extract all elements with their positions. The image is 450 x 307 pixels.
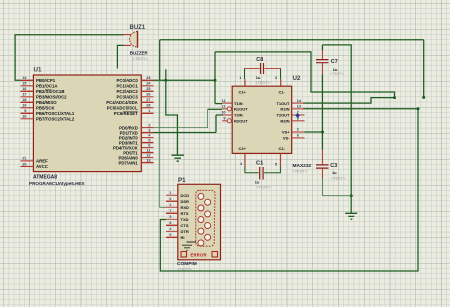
svg-text:RXD: RXD [181,205,190,210]
P1 pin 7 RTS stub [166,212,178,214]
svg-text:PC2/ADC2: PC2/ADC2 [117,89,139,94]
U2 pin 10 T2IN left stub [222,114,232,116]
svg-text:11: 11 [221,99,225,103]
svg-text:BUZ1: BUZ1 [130,25,146,31]
svg-text:U1: U1 [34,67,42,74]
svg-text:AVCC: AVCC [36,164,48,169]
svg-text:13: 13 [297,105,301,109]
wire T1IN net to C7 corner net [215,52,395,104]
svg-text:2: 2 [297,128,299,132]
capacitor C7 [321,51,323,60]
svg-text:19: 19 [22,104,26,108]
svg-text:DTR: DTR [181,229,189,234]
U1 pin 18 (PB4…) left stub [21,101,34,103]
svg-text:DCD: DCD [181,193,190,198]
svg-text:25: 25 [146,87,150,91]
wire net A thin: down to P1 RXD [160,80,166,207]
U1 pin 2 right stub [141,127,153,129]
P1 pin 6 DSR stub [166,200,178,202]
svg-text:12: 12 [221,105,225,109]
svg-text:PC4/ADC4/SDA: PC4/ADC4/SDA [106,100,138,105]
svg-text:9: 9 [24,109,26,113]
wire U1 PC0 (pin23) to T1IN net [154,79,216,81]
U1 pin 6 right stub [141,147,153,149]
U2 pin 9 R2OUT left stub [222,120,227,122]
buzzer BUZ1 [130,32,138,48]
svg-text:C2-: C2- [279,146,286,151]
U2 pin 14 T1OUT right stub [292,102,305,104]
wire C8 left lead down to U2 pin1 [244,68,246,79]
svg-text:<TEXT>: <TEXT> [255,80,270,85]
U1 pin 15 (PB1…) left stub [21,85,34,87]
svg-text:C3: C3 [330,163,337,169]
svg-text:PB7/TOSC2/XTAL2: PB7/TOSC2/XTAL2 [36,117,75,122]
U2 pin 8 R2IN right stub [292,120,305,122]
svg-text:28: 28 [146,104,150,108]
U1 pin 1 right stub [141,112,153,114]
svg-text:RI: RI [181,235,185,240]
P1 DB9 hole col1-1 [198,193,204,199]
P1 DB9 hole col2-3 [205,223,211,229]
U2 pin 7 T2OUT right stub [292,114,305,116]
svg-text:R1IN: R1IN [280,107,289,112]
svg-text:15: 15 [22,82,26,86]
svg-text:C7: C7 [331,59,338,65]
svg-text:<TEXT>: <TEXT> [330,71,345,76]
svg-text:ERROR: ERROR [191,252,207,257]
node junction R1IN corner [417,107,420,110]
U1 pin 9 (PB6…) left stub [21,112,34,114]
U2 pin 4 C2+ bottom stub [244,153,246,167]
svg-text:PC1/ADC1: PC1/ADC1 [117,84,139,89]
svg-text:3: 3 [275,76,277,80]
svg-text:21: 21 [22,157,26,161]
ground symbol right [345,213,357,219]
U1 pin 28 right stub [141,107,153,109]
U2 pin 5 C2- bottom stub [279,153,281,167]
wire C1 left lead [245,167,259,173]
svg-text:1: 1 [169,191,171,195]
BUZ1 pin 2 [124,44,132,46]
wire C3 bottom to ground rail [322,179,351,196]
ground symbol left [172,155,184,161]
svg-text:PC6/RESET: PC6/RESET [114,111,138,116]
U1 pin 19 (PB5…) left stub [21,107,34,109]
U1 pin 23 right stub [141,79,153,81]
svg-text:U2: U2 [293,75,301,82]
U1 pin 24 right stub [141,85,153,87]
svg-text:8: 8 [169,221,171,225]
svg-text:RTS: RTS [181,211,189,216]
U2 pin 13 R1IN right stub [292,108,305,110]
op-amp U2 (MAX232) body [232,86,292,153]
svg-text:PD7/AIN1: PD7/AIN1 [118,160,138,165]
U1 pin 27 right stub [141,101,153,103]
svg-text:10: 10 [221,111,225,115]
svg-text:9: 9 [223,117,225,121]
wire net A: vertical x159.7 top + horizontal y39.8 [160,40,424,81]
svg-text:6: 6 [148,143,150,147]
node junction end [393,96,396,99]
U2 pin 3 C1- top stub [280,79,282,86]
U1 pin 21 AREF stub [21,160,34,162]
svg-text:11: 11 [146,148,150,152]
wire C7 top to right rail down to ground [322,45,351,214]
node junction PC0/W2 [164,79,167,82]
svg-text:R2OUT: R2OUT [234,119,248,124]
U2 pin 1 C1+ top stub [244,79,246,86]
wire U1 PD1/TXD to U2 T2IN [154,115,224,133]
P1 DB9 hole col2-2 [205,211,211,217]
U1 pin 14 (PB0…) left stub [21,79,34,81]
svg-text:26: 26 [146,93,150,97]
svg-text:5: 5 [148,138,150,142]
svg-text:<TEXT>: <TEXT> [133,56,149,61]
svg-text:PC0/ADC0: PC0/ADC0 [117,78,139,83]
svg-text:13: 13 [146,158,150,162]
wire C8 right lead down to U2 pin3 [280,68,282,79]
svg-text:AREF: AREF [36,159,48,164]
svg-text:1: 1 [239,76,241,80]
P1 pin 3 TXD stub [166,218,178,220]
svg-text:23: 23 [146,76,150,80]
svg-text:ATMEGA8: ATMEGA8 [33,174,57,180]
P1 status square right [212,252,218,258]
BUZ1 pin 1 [124,34,132,36]
node junction rail/C3 [350,194,353,197]
svg-text:P1: P1 [178,177,186,184]
svg-text:6: 6 [297,134,299,138]
op-amp U1 (ATMEGA8 MCU) body [33,75,141,172]
connector P1 (COMPIM) body [178,184,221,259]
wire U2 T1OUT to junction [303,98,395,104]
svg-text:C1: C1 [256,161,264,167]
capacitor C8 [245,67,281,69]
svg-text:PROGRAM=Untype5.HEX: PROGRAM=Untype5.HEX [29,181,85,186]
P1 status square left [181,252,187,258]
wire buzzer bottom (dangling) [117,45,123,68]
U2 pin 2 VS+ right stub [292,131,305,133]
U1 pin 20 AVCC stub [21,166,34,168]
svg-text:PB5/SCK: PB5/SCK [36,106,56,111]
P1 DB9 hole col1-4 [198,228,204,234]
node junction T1IN/PC0 [214,79,217,82]
svg-text:T1IN: T1IN [234,101,243,106]
svg-text:T1OUT: T1OUT [276,101,290,106]
P1 DB9 hole col1-5 [198,240,204,246]
U1 pin 26 right stub [141,96,153,98]
U1 pin 13 right stub [141,162,153,164]
svg-text:2: 2 [148,123,150,127]
wire buzzer top to U1 PB0 (pin14) [15,35,123,81]
svg-text:9: 9 [169,233,171,237]
svg-text:T2IN: T2IN [234,113,243,118]
svg-text:2: 2 [169,203,171,207]
wire U2 R1IN to P1 TXD via bottom run [160,109,418,271]
svg-text:1: 1 [148,109,150,113]
svg-text:VS-: VS- [283,136,290,141]
P1 pin 4 DTR stub [166,230,178,232]
svg-text:C2+: C2+ [239,146,247,151]
wire net A right drop [423,40,425,98]
capacitor C3 [321,150,323,165]
P1 DB9 hole col1-3 [198,217,204,223]
U1 pin 12 right stub [141,157,153,159]
P1 pin 2 RXD stub [166,206,178,208]
svg-text:5: 5 [275,163,277,167]
svg-text:PB2/SS/OC1B: PB2/SS/OC1B [36,89,64,94]
U2 pin 6 VS- right stub [292,137,305,139]
U1 pin 5 right stub [141,142,153,144]
svg-text:PB1/OC1A: PB1/OC1A [36,84,58,89]
P1 internal ground symbol [182,242,196,250]
svg-text:TXD: TXD [181,217,189,222]
svg-text:<TEXT>: <TEXT> [256,185,271,190]
svg-text:<TEXT>: <TEXT> [331,176,346,181]
svg-text:PB6/TOSC1/XTAL1: PB6/TOSC1/XTAL1 [36,111,75,116]
svg-text:6: 6 [169,197,171,201]
svg-text:27: 27 [146,98,150,102]
U1 pin 4 right stub [141,137,153,139]
P1 DB9 connector graphic [196,190,215,246]
svg-text:T2OUT: T2OUT [276,113,290,118]
wire PC0 branch to ground (dangling top stub) [166,69,178,155]
svg-text:BUZZER: BUZZER [130,51,149,56]
svg-text:PB0/ICP1: PB0/ICP1 [36,78,56,83]
svg-text:R1OUT: R1OUT [234,107,248,112]
svg-text:20: 20 [22,162,26,166]
node junction VS+ [321,131,324,134]
svg-text:17: 17 [22,93,26,97]
P1 pin 8 CTS stub [166,224,178,226]
P1 DB9 hole col2-1 [205,199,211,205]
node marker (blue) at T2OUT [295,113,300,118]
svg-text:C1+: C1+ [239,90,247,95]
svg-text:<TEXT>: <TEXT> [177,266,192,271]
svg-text:PC3/ADC3: PC3/ADC3 [117,95,139,100]
svg-text:VS+: VS+ [282,130,290,135]
svg-text:C8: C8 [256,57,263,63]
wire R1OUT horizontal [208,108,223,110]
svg-text:1u: 1u [332,170,337,175]
P1 DB9 hole col1-2 [198,205,204,211]
svg-text:<TEXT>: <TEXT> [293,168,308,173]
svg-text:12: 12 [146,153,150,157]
wire U2 VS+ to C-rail [305,131,323,133]
svg-text:3: 3 [169,215,171,219]
U1 pin 17 (PB3…) left stub [21,96,34,98]
svg-text:PB4/MISO: PB4/MISO [36,100,57,105]
U1 pin 3 right stub [141,132,153,134]
svg-text:18: 18 [22,98,26,102]
svg-text:CTS: CTS [181,223,189,228]
wire C7 bottom to VS+/C3 rail [321,75,323,150]
svg-text:PB3/MOSI/OC2: PB3/MOSI/OC2 [36,95,67,100]
P1 pin 9 RI stub [166,236,178,238]
svg-text:PC5/ADC5/SCL: PC5/ADC5/SCL [107,106,138,111]
svg-text:DSR: DSR [181,199,190,204]
svg-text:C1-: C1- [279,90,286,95]
svg-text:7: 7 [169,209,171,213]
svg-text:3: 3 [148,128,150,132]
wire C1 right lead [264,167,280,173]
P1 pin 1 DCD stub [166,194,178,196]
U1 pin 11 right stub [141,152,153,154]
U1 pin 25 right stub [141,90,153,92]
P1 DB9 hole col2-4 [205,234,211,240]
svg-text:16: 16 [22,87,26,91]
svg-text:R2IN: R2IN [280,119,289,124]
U1 pin 10 (PB7…) left stub [21,118,34,120]
node dangling junction [422,96,425,99]
U1 pin 16 (PB2…) left stub [21,90,34,92]
svg-text:10: 10 [22,115,26,119]
U2 pin 11 T1IN left stub [222,102,232,104]
wire U1 PD0/RXD to U2 R1OUT (thin) [154,109,208,127]
U2 pin 12 R1OUT left stub [222,108,227,110]
